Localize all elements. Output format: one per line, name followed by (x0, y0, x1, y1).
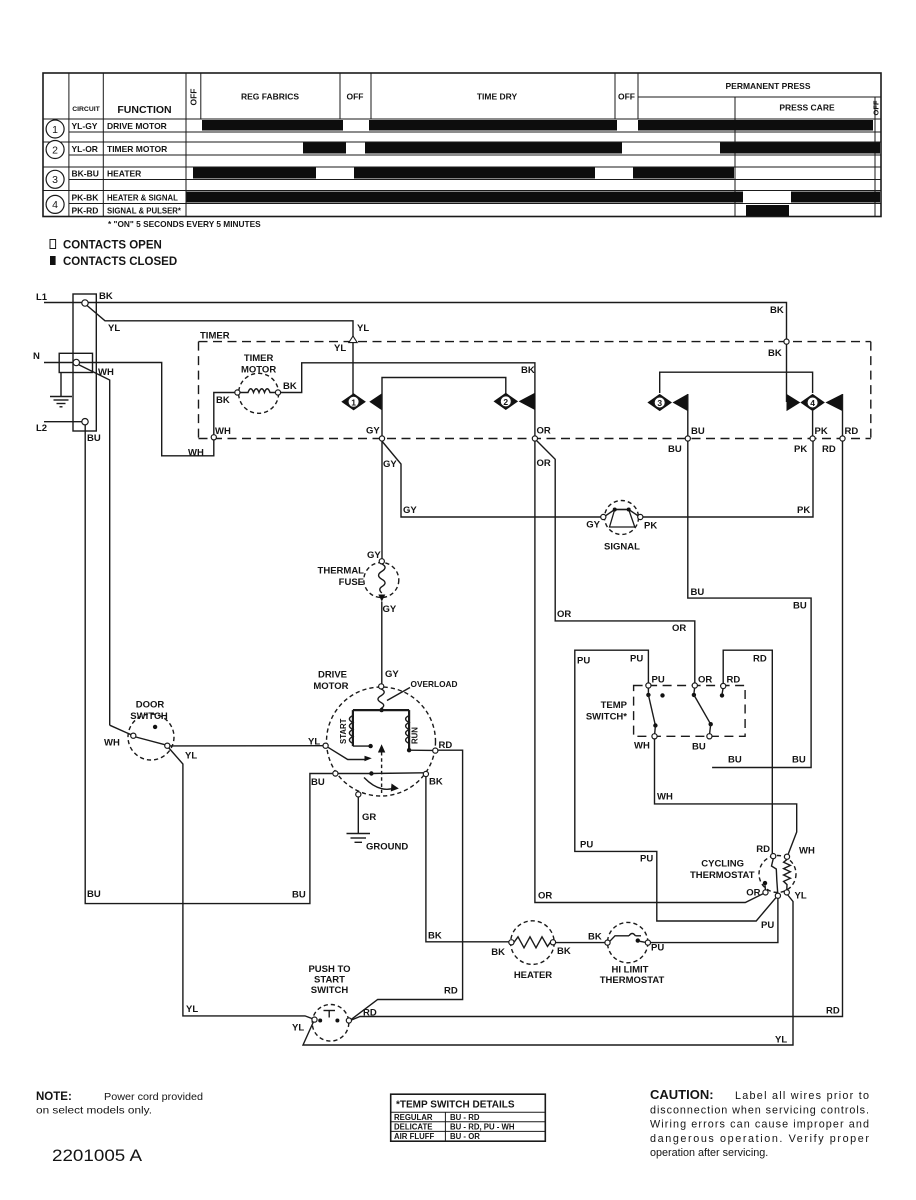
svg-text:PRESS CARE: PRESS CARE (779, 103, 835, 113)
hi-limit thermostat (605, 922, 651, 962)
svg-text:YL: YL (292, 1023, 304, 1034)
wire start winding to contact dot (353, 745, 371, 747)
motor windings top bus (353, 709, 409, 711)
svg-text:1: 1 (351, 397, 356, 407)
svg-text:RD: RD (444, 986, 458, 997)
wire contact3 to contact4 top link (660, 372, 813, 393)
svg-text:RD: RD (845, 426, 859, 437)
svg-text:OFF: OFF (347, 92, 364, 102)
node RD on timer box (840, 436, 845, 441)
svg-text:BK: BK (429, 777, 443, 788)
wire YL door switch down to push-to-start (169, 748, 312, 1019)
wire PU temp switch loop to cycling thermostat (575, 650, 776, 921)
wire contact1 to contact2 top link (382, 378, 506, 437)
wire contact4 diamond to PK node (812, 411, 814, 436)
svg-text:OR: OR (698, 675, 712, 686)
svg-text:Power cord provided: Power cord provided (104, 1092, 203, 1103)
svg-text:L1: L1 (36, 292, 48, 303)
wire OR node down to cycling thermostat (535, 441, 763, 902)
motor BK terminal (423, 771, 428, 776)
timer motor (235, 353, 281, 413)
temp switch RD terminal (721, 683, 726, 688)
svg-text:CIRCUIT: CIRCUIT (72, 106, 100, 113)
motor YL terminal + blade (323, 743, 328, 748)
ground (power cord) (50, 373, 72, 407)
svg-text:PUSH TO: PUSH TO (308, 964, 350, 975)
terminal L1 (82, 300, 88, 306)
svg-text:BU - RD, PU - WH: BU - RD, PU - WH (450, 1123, 515, 1132)
start winding (339, 710, 353, 746)
motor GY terminal + overload (379, 684, 384, 689)
svg-text:GY: GY (403, 505, 417, 516)
svg-text:DRIVE MOTOR: DRIVE MOTOR (107, 121, 167, 131)
legend contacts open (50, 240, 162, 252)
svg-text:DOOR: DOOR (136, 700, 165, 711)
svg-text:AIR FLUFF: AIR FLUFF (394, 1132, 435, 1141)
svg-text:2: 2 (52, 144, 58, 156)
wire GY node down to thermal fuse (381, 441, 383, 558)
svg-text:TIMER: TIMER (200, 331, 230, 342)
svg-text:YL: YL (795, 891, 807, 902)
node WH on timer box (211, 435, 216, 440)
svg-text:BU - OR: BU - OR (450, 1132, 480, 1141)
wire BU from L2 down left side (85, 425, 332, 904)
svg-text:PU: PU (577, 656, 590, 667)
svg-text:BK-BU: BK-BU (72, 169, 99, 179)
svg-text:WH: WH (104, 738, 120, 749)
timing bars row1 DRIVE MOTOR (202, 120, 873, 131)
svg-text:SIGNAL & PULSER*: SIGNAL & PULSER* (107, 207, 182, 216)
wire PU cycling thermostat to hi-limit (651, 898, 778, 942)
svg-text:DRIVE: DRIVE (318, 670, 347, 681)
wire WH temp switch to cycling thermostat (655, 739, 797, 854)
svg-text:operation after servicing.: operation after servicing. (650, 1147, 768, 1159)
wire contact4 arrow to RD node (842, 394, 844, 436)
rotation arc (364, 778, 396, 790)
svg-text:CONTACTS OPEN: CONTACTS OPEN (63, 240, 162, 252)
wire heater to hi-limit (556, 942, 605, 944)
svg-text:OR: OR (537, 458, 551, 469)
svg-text:WH: WH (634, 741, 650, 752)
svg-text:PU: PU (651, 943, 664, 954)
wire BK timer motor right to contact 2 (281, 363, 535, 436)
node PK on timer box (810, 436, 815, 441)
svg-text:PK-RD: PK-RD (72, 206, 99, 216)
svg-text:YL: YL (185, 751, 197, 762)
svg-text:GY: GY (383, 604, 397, 615)
svg-text:THERMAL: THERMAL (318, 566, 365, 577)
temp switch contacts (646, 688, 724, 734)
svg-text:OR: OR (537, 426, 551, 437)
svg-text:Wiring errors can cause improp: Wiring errors can cause improper and (650, 1119, 869, 1131)
svg-text:HI LIMIT: HI LIMIT (612, 965, 649, 976)
svg-text:BK: BK (521, 365, 535, 376)
temp switch OR terminal (692, 683, 697, 688)
circled row numbers (46, 120, 64, 213)
svg-text:WH: WH (799, 846, 815, 857)
svg-text:SWITCH*: SWITCH* (586, 712, 627, 723)
svg-text:3: 3 (52, 174, 58, 186)
svg-text:RD: RD (439, 740, 453, 751)
svg-text:4: 4 (52, 199, 58, 211)
svg-text:YL: YL (775, 1035, 787, 1046)
svg-text:PU: PU (580, 840, 593, 851)
caution (650, 1087, 869, 1159)
timing bars row4 HEATER & SIGNAL / SIGNAL & PULSER (187, 192, 881, 217)
svg-text:BK: BK (216, 395, 230, 406)
svg-text:PU: PU (640, 854, 653, 865)
svg-text:HEATER: HEATER (107, 169, 141, 179)
svg-text:PU: PU (630, 654, 643, 665)
svg-text:REGULAR: REGULAR (394, 1113, 433, 1122)
motor BU terminal (333, 771, 338, 776)
svg-text:PK: PK (815, 426, 828, 437)
svg-text:OFF: OFF (189, 89, 199, 106)
svg-text:THERMOSTAT: THERMOSTAT (600, 975, 665, 986)
svg-text:PK: PK (644, 521, 657, 532)
svg-text:* "ON" 5 SECONDS EVERY 5 MINUT: * "ON" 5 SECONDS EVERY 5 MINUTES (108, 219, 261, 229)
svg-text:FUNCTION: FUNCTION (117, 104, 171, 116)
svg-text:GROUND: GROUND (366, 842, 408, 853)
svg-text:HEATER & SIGNAL: HEATER & SIGNAL (107, 194, 178, 203)
svg-text:START: START (314, 975, 345, 986)
svg-text:BK: BK (770, 305, 784, 316)
svg-text:REG FABRICS: REG FABRICS (241, 92, 299, 102)
wire BK timer motor left to WH node (214, 393, 235, 436)
svg-text:4: 4 (810, 398, 815, 408)
svg-text:BU: BU (691, 587, 705, 598)
centrifugal linkage (381, 752, 383, 793)
node BU on timer box (685, 436, 690, 441)
svg-text:YL: YL (357, 323, 369, 334)
svg-text:YL: YL (186, 1004, 198, 1015)
svg-text:CYCLING: CYCLING (701, 859, 744, 870)
note (36, 1091, 203, 1117)
svg-text:OVERLOAD: OVERLOAD (411, 679, 458, 689)
svg-text:GY: GY (383, 459, 397, 470)
svg-text:RD: RD (756, 844, 770, 855)
timer contact 1 (341, 393, 382, 410)
svg-text:TEMP: TEMP (601, 700, 628, 711)
svg-text:BK: BK (557, 946, 571, 957)
svg-text:Label all wires prior to: Label all wires prior to (735, 1090, 869, 1102)
svg-text:RD: RD (753, 654, 767, 665)
svg-text:BU: BU (792, 755, 806, 766)
svg-text:RUN: RUN (411, 727, 420, 744)
svg-text:dangerous operation. Verify pr: dangerous operation. Verify proper (650, 1133, 869, 1145)
drive motor (313, 670, 435, 797)
svg-text:1: 1 (52, 124, 58, 136)
wire contact3 arrow down to BU node (687, 394, 689, 436)
svg-text:OR: OR (746, 888, 760, 899)
svg-text:2201005 A: 2201005 A (52, 1146, 143, 1165)
motor GR terminal + ground (356, 792, 361, 797)
svg-text:CAUTION:: CAUTION: (650, 1087, 714, 1102)
svg-text:OR: OR (672, 623, 686, 634)
wire BU node to temp switch BU (688, 441, 811, 767)
svg-text:SIGNAL: SIGNAL (604, 542, 640, 553)
svg-text:RD: RD (727, 675, 741, 686)
wire BK motor to heater (426, 777, 509, 942)
motor switch blade to BK (371, 772, 423, 775)
push to start switch (308, 964, 351, 1041)
svg-text:THERMOSTAT: THERMOSTAT (690, 870, 755, 881)
wire N lead (44, 362, 73, 364)
svg-text:BK: BK (428, 931, 442, 942)
svg-text:OFF: OFF (618, 92, 635, 102)
node BK on timer box (784, 339, 789, 344)
wire YL from L1 (87, 306, 353, 395)
header texts (72, 81, 880, 116)
svg-text:TIMER: TIMER (244, 353, 274, 364)
svg-text:PK: PK (794, 444, 807, 455)
svg-text:PK: PK (797, 505, 810, 516)
svg-text:BK: BK (588, 932, 602, 943)
temp switch dashed box (634, 686, 746, 737)
timer contact 4 (787, 394, 843, 411)
circuit / function labels (72, 121, 182, 216)
svg-text:N: N (33, 351, 40, 362)
svg-text:TIMER MOTOR: TIMER MOTOR (107, 144, 167, 154)
temp switch WH terminal (652, 734, 657, 739)
svg-text:BU: BU (311, 777, 325, 788)
legend contacts closed (50, 256, 177, 268)
terminal N (73, 359, 79, 365)
node OR on timer box (532, 436, 537, 441)
svg-text:BK: BK (768, 348, 782, 359)
svg-text:GY: GY (366, 426, 380, 437)
timing bars row2 TIMER MOTOR (303, 143, 880, 154)
svg-text:NOTE:: NOTE: (36, 1091, 72, 1103)
door switch (128, 700, 174, 761)
table frame (43, 73, 881, 217)
svg-text:BU: BU (668, 444, 682, 455)
signal (601, 501, 643, 535)
svg-text:YL-GY: YL-GY (72, 121, 98, 131)
svg-text:2: 2 (503, 397, 508, 407)
wire L1 lead (44, 302, 82, 304)
wire OR node branch to temp switch (537, 441, 695, 684)
svg-text:MOTOR: MOTOR (313, 681, 348, 692)
svg-text:BU: BU (87, 889, 101, 900)
svg-text:GY: GY (367, 550, 381, 561)
svg-text:3: 3 (657, 398, 662, 408)
temp switch PU terminal (646, 683, 651, 688)
svg-text:BK: BK (283, 381, 297, 392)
svg-text:BK: BK (491, 947, 505, 958)
YL entry arrow into timer (349, 336, 357, 343)
svg-text:WH: WH (657, 792, 673, 803)
svg-text:RD: RD (822, 444, 836, 455)
svg-text:YL: YL (108, 323, 120, 334)
svg-text:SWITCH: SWITCH (130, 711, 168, 722)
svg-text:BU: BU (292, 890, 306, 901)
temp switch BU terminal (707, 734, 712, 739)
svg-text:OR: OR (557, 609, 571, 620)
timer contact 2 (494, 393, 535, 410)
timing bars row3 HEATER (193, 168, 734, 179)
svg-text:on select models only.: on select models only. (36, 1106, 152, 1117)
timer contact 3 (647, 394, 687, 411)
wire GY node to signal (382, 441, 601, 517)
svg-text:YL: YL (334, 343, 346, 354)
svg-text:SWITCH: SWITCH (311, 985, 349, 996)
svg-text:GR: GR (362, 812, 376, 823)
heater (509, 921, 556, 965)
wire GY fuse to drive motor (381, 602, 383, 684)
temp switch details table (391, 1094, 546, 1141)
svg-text:GY: GY (586, 520, 600, 531)
svg-text:BU: BU (793, 601, 807, 612)
wire YL cycling thermostat to push-to-start (303, 895, 793, 1045)
wire PK signal to PK node (643, 441, 813, 517)
svg-text:PU: PU (761, 920, 774, 931)
svg-text:CONTACTS CLOSED: CONTACTS CLOSED (63, 256, 177, 268)
terminal L2 (82, 419, 88, 425)
svg-text:GY: GY (385, 669, 399, 680)
svg-text:disconnection when servicing c: disconnection when servicing controls. (650, 1104, 869, 1116)
svg-text:BU: BU (691, 426, 705, 437)
node GY on timer box (379, 436, 384, 441)
svg-text:*TEMP SWITCH DETAILS: *TEMP SWITCH DETAILS (396, 1100, 515, 1111)
svg-text:WH: WH (188, 448, 204, 459)
svg-text:OR: OR (538, 891, 552, 902)
wire YL door switch to motor (170, 745, 323, 747)
svg-text:FUSE: FUSE (339, 577, 364, 588)
svg-text:RD: RD (826, 1006, 840, 1017)
svg-text:TIME DRY: TIME DRY (477, 92, 518, 102)
svg-text:MOTOR: MOTOR (241, 365, 276, 376)
svg-text:BU: BU (87, 433, 101, 444)
svg-text:OFF: OFF (872, 100, 881, 115)
wire RD motor down to push-to-start (351, 750, 462, 1019)
timer dashed box (199, 342, 871, 439)
svg-text:L2: L2 (36, 423, 47, 434)
svg-text:START: START (339, 718, 348, 744)
terminal block (73, 294, 96, 431)
svg-text:WH: WH (215, 426, 231, 437)
svg-text:DELICATE: DELICATE (394, 1123, 432, 1132)
svg-text:HEATER: HEATER (514, 970, 552, 981)
svg-text:WH: WH (98, 367, 114, 378)
wire WH into door switch (110, 725, 131, 735)
cycling thermostat (690, 854, 796, 899)
wire RD contact4 down right side (352, 441, 843, 1020)
wire RD motor terminal lead (409, 749, 433, 751)
svg-text:PU: PU (652, 675, 665, 686)
svg-text:PERMANENT PRESS: PERMANENT PRESS (725, 81, 810, 91)
wire WH from N to timer (80, 363, 214, 456)
wire BK from L1 across top (88, 303, 786, 403)
wire RD temp switch to cycling thermostat (723, 650, 772, 853)
svg-text:YL-OR: YL-OR (72, 144, 98, 154)
run winding (406, 710, 420, 750)
svg-text:BK: BK (99, 291, 113, 302)
svg-text:BU - RD: BU - RD (450, 1113, 480, 1122)
wire WH from N down to door switch (79, 365, 110, 725)
svg-text:BU: BU (692, 742, 706, 753)
svg-text:BU: BU (728, 755, 742, 766)
thermal fuse (364, 559, 399, 602)
svg-text:PK-BK: PK-BK (72, 193, 100, 203)
